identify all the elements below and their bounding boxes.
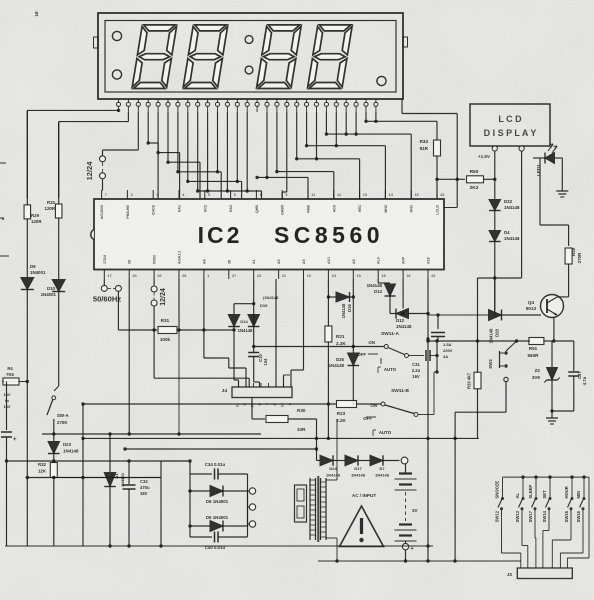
svg-text:+: + bbox=[410, 546, 413, 552]
svg-text:SW3: SW3 bbox=[488, 359, 493, 369]
svg-text:2.2K: 2.2K bbox=[336, 341, 346, 346]
svg-text:11: 11 bbox=[311, 193, 315, 197]
svg-text:GHB5: GHB5 bbox=[281, 205, 285, 215]
svg-text:18: 18 bbox=[381, 274, 385, 278]
svg-text:26: 26 bbox=[157, 274, 161, 278]
svg-text:D13: D13 bbox=[374, 289, 383, 294]
svg-text:IC2: IC2 bbox=[198, 222, 243, 248]
svg-text:S3: S3 bbox=[281, 403, 285, 407]
svg-text:12K: 12K bbox=[38, 469, 47, 474]
svg-text:+: + bbox=[13, 437, 17, 443]
svg-text:AL: AL bbox=[515, 492, 520, 498]
svg-text:SW14: SW14 bbox=[542, 510, 547, 522]
svg-text:OFF: OFF bbox=[363, 416, 372, 421]
svg-text:D24: D24 bbox=[329, 466, 337, 471]
svg-text:S1: S1 bbox=[236, 403, 240, 407]
svg-text:R32: R32 bbox=[38, 462, 47, 467]
svg-text:L C D: L C D bbox=[498, 114, 522, 124]
svg-text:10V: 10V bbox=[3, 392, 10, 397]
svg-text:SW13: SW13 bbox=[515, 510, 520, 522]
svg-text:HB1: HB1 bbox=[358, 205, 362, 212]
svg-text:(1N4148: (1N4148 bbox=[263, 295, 279, 300]
svg-text:LCLD: LCLD bbox=[436, 205, 440, 215]
svg-text:1N4148: 1N4148 bbox=[63, 449, 79, 454]
svg-text:MIN: MIN bbox=[576, 491, 581, 499]
svg-text:1N4148: 1N4148 bbox=[367, 283, 383, 288]
svg-text:R4: R4 bbox=[7, 366, 13, 371]
svg-text:to: to bbox=[5, 398, 9, 403]
svg-text:SNOOZE: SNOOZE bbox=[495, 481, 500, 499]
svg-text:D I S P L A Y: D I S P L A Y bbox=[484, 128, 537, 138]
svg-text:2.2K: 2.2K bbox=[336, 418, 346, 423]
svg-text:17: 17 bbox=[108, 274, 112, 278]
svg-text:+: + bbox=[121, 476, 124, 482]
svg-text:AL0: AL0 bbox=[377, 257, 381, 264]
svg-text:51R: 51R bbox=[420, 146, 429, 151]
svg-text:1: 1 bbox=[207, 274, 209, 278]
svg-text:A8: A8 bbox=[352, 259, 356, 264]
svg-text:18: 18 bbox=[34, 11, 39, 17]
svg-text:270K: 270K bbox=[57, 420, 68, 425]
svg-text:Z2: Z2 bbox=[535, 368, 541, 373]
svg-text:22: 22 bbox=[431, 274, 435, 278]
svg-text:10: 10 bbox=[307, 274, 311, 278]
svg-text:2: 2 bbox=[131, 193, 133, 197]
svg-text:1N4148: 1N4148 bbox=[375, 473, 390, 478]
svg-text:21: 21 bbox=[282, 274, 286, 278]
svg-text:R29: R29 bbox=[31, 213, 40, 218]
svg-text:17/24: 17/24 bbox=[103, 255, 107, 264]
svg-text:HA1: HA1 bbox=[178, 205, 182, 212]
svg-text:CHCE: CHCE bbox=[152, 204, 156, 215]
svg-text:R50: R50 bbox=[470, 169, 479, 175]
svg-text:D6 1N4001: D6 1N4001 bbox=[206, 499, 229, 504]
svg-text:3: 3 bbox=[156, 193, 158, 197]
svg-text:104: 104 bbox=[263, 358, 268, 366]
svg-text:R31: R31 bbox=[161, 318, 170, 323]
svg-text:50/60Hz: 50/60Hz bbox=[93, 295, 121, 304]
svg-text:J3: J3 bbox=[507, 572, 513, 577]
svg-text:1N4148: 1N4148 bbox=[504, 205, 520, 210]
svg-text:D23: D23 bbox=[63, 442, 72, 447]
svg-text:1N4148: 1N4148 bbox=[326, 473, 341, 478]
svg-text:J4: J4 bbox=[222, 388, 228, 394]
svg-text:R33 4k7: R33 4k7 bbox=[467, 372, 472, 389]
svg-text:120R: 120R bbox=[31, 219, 42, 224]
svg-text:RHB: RHB bbox=[307, 205, 311, 213]
svg-text:270R: 270R bbox=[577, 252, 582, 263]
svg-text:2K2: 2K2 bbox=[470, 185, 479, 191]
svg-text:A/C4002: A/C4002 bbox=[100, 205, 104, 219]
svg-text:SLEEP: SLEEP bbox=[528, 485, 533, 499]
svg-text:SET: SET bbox=[542, 490, 547, 499]
svg-text:SW11-B: SW11-B bbox=[391, 388, 409, 394]
svg-text:D14: D14 bbox=[240, 319, 248, 324]
svg-text:AUTO: AUTO bbox=[379, 430, 392, 435]
svg-text:D25: D25 bbox=[336, 357, 345, 362]
svg-text:1N4148: 1N4148 bbox=[396, 324, 412, 329]
svg-text:3V9: 3V9 bbox=[532, 375, 541, 380]
svg-text:A0P: A0P bbox=[402, 256, 406, 264]
svg-text:38: 38 bbox=[227, 260, 231, 264]
svg-text:D5 1N4001: D5 1N4001 bbox=[206, 515, 229, 520]
svg-text:3V: 3V bbox=[412, 508, 419, 513]
svg-text:SW11-A: SW11-A bbox=[381, 331, 399, 337]
svg-text:D1: D1 bbox=[114, 473, 119, 479]
svg-text:C31: C31 bbox=[412, 362, 420, 367]
svg-text:A0/A1.3: A0/A1.3 bbox=[178, 251, 182, 264]
svg-text:R23: R23 bbox=[337, 411, 346, 416]
svg-text:4A: 4A bbox=[443, 354, 448, 359]
svg-text:ON: ON bbox=[370, 403, 377, 408]
svg-text:A1: A1 bbox=[252, 259, 256, 264]
svg-text:HA3: HA3 bbox=[229, 205, 233, 212]
svg-text:D16: D16 bbox=[347, 303, 352, 311]
svg-text:MH2: MH2 bbox=[384, 205, 388, 213]
svg-text:R21: R21 bbox=[336, 334, 345, 339]
svg-text:C34 0.01u: C34 0.01u bbox=[205, 462, 226, 467]
svg-text:1N4148: 1N4148 bbox=[351, 473, 366, 478]
svg-text:SW12: SW12 bbox=[495, 510, 500, 522]
svg-text:R34: R34 bbox=[420, 139, 429, 144]
svg-text:1N4148: 1N4148 bbox=[341, 303, 346, 318]
svg-text:8: 8 bbox=[260, 193, 262, 197]
svg-text:ON: ON bbox=[368, 340, 375, 345]
svg-text:7K6: 7K6 bbox=[6, 372, 14, 377]
svg-text:6: 6 bbox=[234, 193, 236, 197]
svg-text:12: 12 bbox=[337, 193, 341, 197]
svg-text:560R: 560R bbox=[528, 353, 540, 358]
svg-text:15: 15 bbox=[414, 193, 418, 197]
svg-text:A10: A10 bbox=[327, 257, 331, 264]
svg-text:A9: A9 bbox=[302, 259, 306, 264]
svg-text:R33: R33 bbox=[47, 200, 56, 205]
svg-text:PM/LHB: PM/LHB bbox=[126, 205, 130, 219]
svg-text:+1.5V: +1.5V bbox=[478, 154, 491, 159]
svg-text:4.7u: 4.7u bbox=[582, 376, 587, 385]
svg-text:9: 9 bbox=[285, 193, 287, 197]
svg-text:1N4148: 1N4148 bbox=[504, 236, 520, 241]
svg-text:1N4148: 1N4148 bbox=[329, 363, 345, 368]
svg-text:1N4001: 1N4001 bbox=[30, 270, 46, 275]
svg-text:19: 19 bbox=[357, 274, 361, 278]
svg-text:23: 23 bbox=[257, 274, 261, 278]
svg-text:C33: C33 bbox=[140, 479, 148, 484]
svg-text:HC9: HC9 bbox=[332, 205, 336, 212]
svg-text:D32: D32 bbox=[504, 199, 513, 204]
svg-text:2.2u: 2.2u bbox=[412, 368, 421, 373]
svg-text:A18: A18 bbox=[427, 257, 431, 264]
svg-text:13: 13 bbox=[363, 193, 367, 197]
svg-text:27: 27 bbox=[232, 274, 236, 278]
svg-text:A8: A8 bbox=[202, 259, 206, 264]
svg-text:R51: R51 bbox=[529, 346, 538, 351]
svg-text:220V: 220V bbox=[443, 348, 453, 353]
svg-text:R48: R48 bbox=[571, 247, 576, 256]
svg-text:16V: 16V bbox=[412, 374, 420, 379]
svg-text:AUTO: AUTO bbox=[384, 367, 397, 372]
svg-text:12/24: 12/24 bbox=[160, 288, 167, 306]
svg-text:33R: 33R bbox=[297, 427, 306, 432]
svg-text:D9: D9 bbox=[30, 264, 36, 269]
svg-text:AC / INPUT: AC / INPUT bbox=[352, 493, 376, 498]
svg-text:D12: D12 bbox=[396, 318, 405, 323]
svg-text:28: 28 bbox=[128, 260, 132, 264]
svg-text:Q4: Q4 bbox=[528, 300, 535, 305]
svg-text:15V: 15V bbox=[3, 404, 10, 409]
svg-text:R30: R30 bbox=[297, 408, 306, 413]
svg-text:A5: A5 bbox=[277, 259, 281, 264]
svg-text:12/24: 12/24 bbox=[85, 161, 94, 181]
svg-text:D17: D17 bbox=[354, 466, 362, 471]
svg-text:W41: W41 bbox=[410, 205, 414, 212]
svg-text:SW17: SW17 bbox=[528, 510, 533, 522]
svg-text:16V: 16V bbox=[140, 491, 148, 496]
svg-text:G: G bbox=[243, 403, 247, 406]
svg-text:25: 25 bbox=[182, 274, 186, 278]
svg-text:D10: D10 bbox=[47, 286, 56, 291]
svg-text:D4: D4 bbox=[504, 230, 510, 235]
svg-text:16: 16 bbox=[406, 274, 410, 278]
svg-text:SW-A: SW-A bbox=[57, 413, 69, 418]
svg-text:1N4148: 1N4148 bbox=[238, 328, 253, 333]
svg-text:9013: 9013 bbox=[526, 306, 537, 311]
svg-text:HOUR: HOUR bbox=[564, 486, 569, 498]
svg-text:D15: D15 bbox=[260, 303, 268, 308]
svg-text:120R: 120R bbox=[45, 206, 56, 211]
svg-text:D7: D7 bbox=[379, 466, 385, 471]
svg-text:1N4001: 1N4001 bbox=[41, 292, 57, 297]
svg-text:1.5A: 1.5A bbox=[443, 342, 452, 347]
svg-text:SW15: SW15 bbox=[564, 510, 569, 522]
svg-text:100k: 100k bbox=[160, 337, 171, 342]
svg-text:50/60: 50/60 bbox=[153, 255, 157, 264]
svg-text:HC2: HC2 bbox=[203, 205, 207, 212]
svg-text:7: 7 bbox=[105, 193, 107, 197]
svg-text:SC8560: SC8560 bbox=[274, 222, 384, 248]
svg-text:SW16: SW16 bbox=[576, 510, 581, 522]
svg-text:D28: D28 bbox=[495, 328, 500, 336]
svg-text:5: 5 bbox=[208, 193, 210, 197]
svg-text:23: 23 bbox=[440, 193, 444, 197]
svg-text:QHB: QHB bbox=[255, 205, 259, 213]
svg-text:470u: 470u bbox=[140, 485, 150, 490]
svg-text:20: 20 bbox=[132, 274, 136, 278]
